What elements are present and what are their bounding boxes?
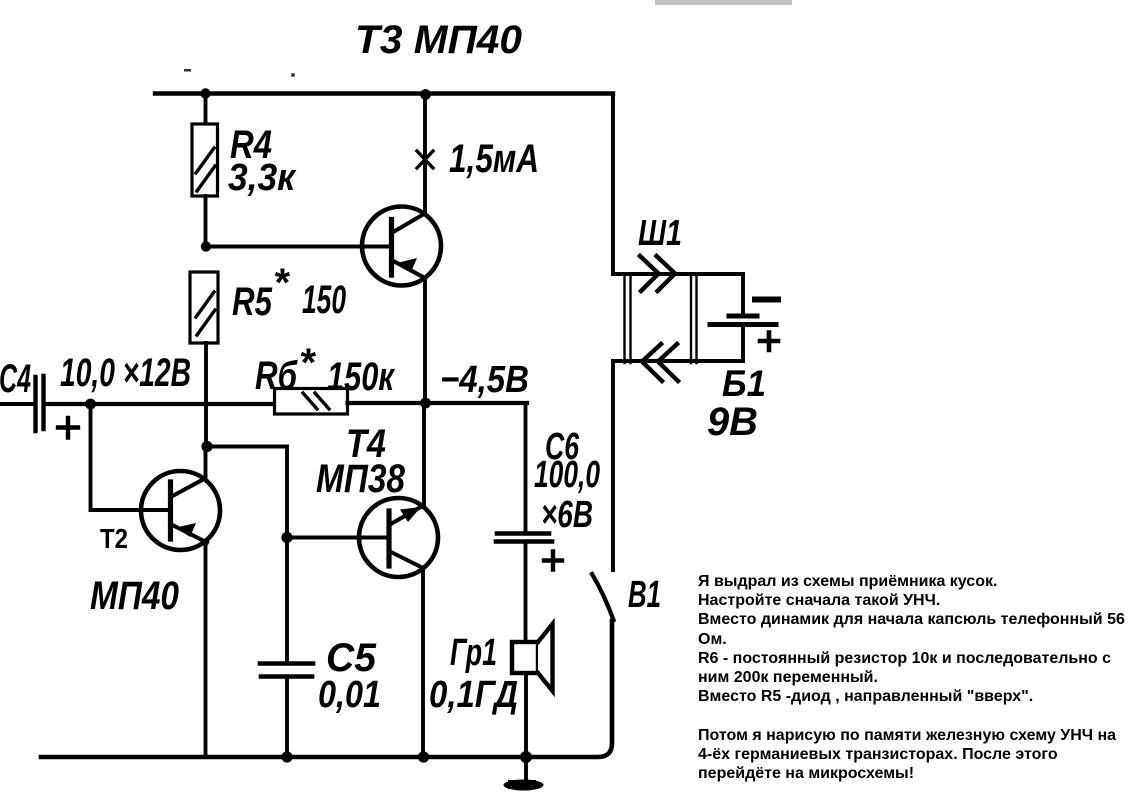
label R4 <box>230 123 272 167</box>
connector Ш1 left pin double line <box>625 274 631 363</box>
svg-text:Б1: Б1 <box>722 363 766 404</box>
label 100,0 <box>534 454 600 496</box>
svg-text:С4: С4 <box>0 357 31 401</box>
svg-text:150: 150 <box>302 278 346 322</box>
svg-text:*: * <box>273 261 291 305</box>
label ×6В <box>541 494 593 536</box>
wire: input line from C4 to R6 <box>46 402 274 406</box>
label −4,5В <box>440 359 529 401</box>
label Т2 <box>100 523 128 554</box>
node: junction dot top rail / R4 <box>200 88 210 98</box>
capacitor C4 plates <box>36 376 44 431</box>
wire: top supply rail <box>155 91 613 95</box>
wire: ground rail bottom <box>41 621 612 757</box>
svg-text:R5: R5 <box>232 280 273 324</box>
label Т4 <box>346 422 386 466</box>
svg-text:9В: 9В <box>707 400 758 444</box>
wire: R5 bottom lead down to T2 collector junction <box>204 343 208 446</box>
label 10,0 ×12В <box>60 351 191 395</box>
label Б1 <box>722 363 766 404</box>
resistor R4 body <box>192 124 218 196</box>
battery Б1 bottom lead <box>741 327 745 361</box>
label МП40 <box>90 574 179 618</box>
wire: C6 top lead corner <box>524 403 528 531</box>
speaker Гр1 <box>512 624 553 691</box>
svg-text:100,0: 100,0 <box>534 454 600 496</box>
svg-text:В1: В1 <box>628 574 661 616</box>
svg-text:1,5мА: 1,5мА <box>449 137 539 181</box>
label title Т3 МП40 <box>355 18 522 62</box>
svg-text:Т2: Т2 <box>100 523 128 554</box>
svg-text:*: * <box>299 341 317 385</box>
node: junction dot −4,5В <box>420 398 431 409</box>
wire: C5 top lead <box>285 538 289 662</box>
wire: stub below ground rail <box>524 762 528 779</box>
transistor T2 (МП40) <box>141 471 220 550</box>
wire: T3 base lead <box>206 245 391 249</box>
resistor R6 body <box>275 389 348 415</box>
wire: right vertical from top rail to connector <box>611 94 615 275</box>
label Гр1 <box>450 632 497 674</box>
label 0,1ГД <box>429 674 518 716</box>
wire: input line right of R6 to C6 corner <box>348 401 528 405</box>
label R6 * 150к <box>255 341 395 399</box>
connector Ш1 bottom chevrons <box>642 344 678 381</box>
label МП38 <box>316 457 406 501</box>
transistor T3 (МП40) <box>362 207 441 286</box>
svg-text:МП38: МП38 <box>316 457 406 501</box>
node: junction dot input/T2 base <box>85 399 96 410</box>
label В1 <box>628 574 661 616</box>
label С6 <box>545 426 580 468</box>
svg-text:10,0 ×12В: 10,0 ×12В <box>60 351 191 395</box>
connector Ш1 bottom wire <box>613 359 743 363</box>
wire: R4 bottom lead <box>204 196 208 246</box>
battery minus sign <box>755 297 778 303</box>
node: junction dot C5 at ground rail <box>281 751 292 762</box>
wire: T2 collector up to junction <box>204 447 208 479</box>
current marker × on collector wire <box>417 151 433 168</box>
svg-text:150к: 150к <box>327 355 395 399</box>
svg-text:3,3к: 3,3к <box>228 157 297 199</box>
wire: drop from input dot down and right to T2 base <box>91 404 171 510</box>
scan artifact gray bar top <box>655 0 792 5</box>
label 3,3к <box>228 157 297 199</box>
speck dot near title <box>184 69 295 77</box>
note paragraph text <box>698 572 1139 783</box>
svg-text:Rб: Rб <box>255 354 298 398</box>
wire: T4 bottom lead to ground rail <box>421 568 425 758</box>
wire: T3 collector up to rail <box>423 95 427 214</box>
wire: link from T2 collector junction to T4 base column <box>207 447 287 538</box>
wire: T4 base lead <box>287 536 389 540</box>
label R5 * 150 <box>232 261 346 324</box>
wire: C6 bottom lead to speaker <box>524 544 528 642</box>
svg-text:0,01: 0,01 <box>318 674 381 716</box>
wire: switch column upper <box>611 361 615 570</box>
svg-text:×6В: ×6В <box>541 494 593 536</box>
connector Ш1 top wire <box>613 272 743 276</box>
connector Ш1 right pin double line <box>691 274 697 363</box>
node: junction dot T4 at ground rail <box>418 751 429 762</box>
battery plus sign <box>760 333 778 351</box>
wire: T3 emitter down to −4,5В node <box>423 278 427 404</box>
label Ш1 <box>638 212 682 253</box>
node: junction dot speaker at ground rail <box>520 751 532 763</box>
wire: R4 top lead <box>204 94 208 125</box>
wire: C5 bottom lead <box>285 679 289 757</box>
capacitor C6 plates <box>496 534 552 542</box>
polarity + of C4 <box>58 418 78 438</box>
svg-text:МП40: МП40 <box>90 574 179 618</box>
wire: T2 emitter down to ground rail <box>204 543 208 756</box>
node: junction dot T3 collector at rail <box>420 89 431 100</box>
wire: speaker bottom lead <box>524 673 528 752</box>
switch В1 lever <box>592 574 614 620</box>
ground smudge blob <box>504 780 544 791</box>
battery Б1 plates <box>710 316 776 325</box>
node: junction dot R4/R5/T3 base <box>201 241 211 251</box>
label 9В <box>707 400 758 444</box>
wire: input lead left of C4 <box>0 402 33 406</box>
wire: T4 top lead to −4,5В node <box>422 403 426 507</box>
svg-text:Ш1: Ш1 <box>638 212 682 253</box>
label С5 <box>326 636 377 680</box>
node: junction dot T4 base / C5 <box>281 532 292 543</box>
resistor R5 body <box>190 272 218 343</box>
capacitor C5 plates <box>260 664 313 677</box>
polarity + of C6 <box>544 552 562 570</box>
svg-text:Гр1: Гр1 <box>450 632 497 674</box>
svg-text:−4,5В: −4,5В <box>440 359 529 401</box>
label 0,01 <box>318 674 381 716</box>
svg-text:0,1ГД: 0,1ГД <box>429 674 518 716</box>
transistor T4 (МП38) <box>359 498 438 577</box>
connector Ш1 top chevrons <box>640 256 675 291</box>
svg-text:Т3 МП40: Т3 МП40 <box>355 18 522 62</box>
node: junction dot T2 collector / R5 / link to T4 <box>201 441 212 452</box>
label 1,5мА <box>449 137 539 181</box>
battery Б1 top lead <box>741 274 745 313</box>
label С4 <box>0 357 31 401</box>
